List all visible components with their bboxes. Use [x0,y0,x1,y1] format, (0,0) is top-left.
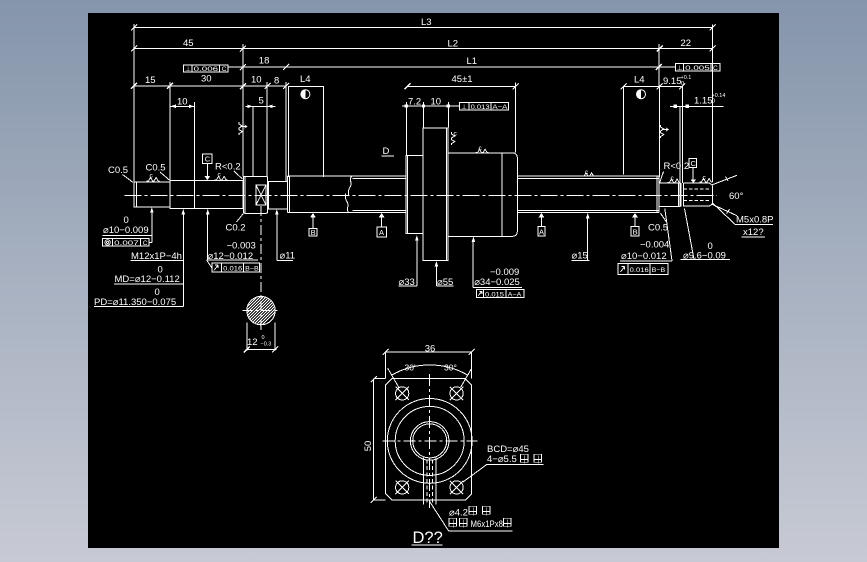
svg-text:A−A: A−A [492,104,508,111]
svg-text:0: 0 [262,335,265,341]
svg-text:60°: 60° [729,191,744,202]
svg-text:A−A: A−A [508,292,522,299]
svg-text:C: C [691,159,697,168]
svg-text:D??: D?? [413,529,443,547]
svg-text:⊥: ⊥ [461,104,467,111]
svg-text:45±1: 45±1 [452,74,473,85]
svg-text:50: 50 [363,441,374,452]
svg-text:B−B: B−B [652,267,666,274]
svg-text:D: D [383,146,390,157]
svg-text:⊥: ⊥ [677,65,683,72]
svg-text:⌀11: ⌀11 [280,250,296,261]
svg-text:7.2: 7.2 [408,97,421,108]
svg-text:L1: L1 [467,56,478,67]
svg-text:10: 10 [431,97,442,108]
svg-text:⌀10−0.009: ⌀10−0.009 [103,225,149,236]
svg-text:C0.2: C0.2 [226,223,246,234]
svg-text:0.006: 0.006 [194,66,219,73]
svg-text:18: 18 [259,55,270,66]
svg-text:C0.5: C0.5 [648,223,668,234]
svg-text:22: 22 [681,38,692,49]
svg-text:10: 10 [251,75,262,86]
svg-text:10: 10 [177,97,188,108]
svg-text:C: C [143,240,148,247]
svg-text:⊥: ⊥ [185,66,191,73]
svg-text:36: 36 [425,343,436,354]
svg-text:L4: L4 [300,74,311,85]
svg-text:0.016: 0.016 [630,267,649,274]
svg-text:9.15: 9.15 [663,76,682,87]
svg-text:0.007: 0.007 [114,240,139,247]
svg-text:0.005: 0.005 [685,65,710,72]
svg-text:C: C [205,155,211,164]
svg-text:⌀34−0.025: ⌀34−0.025 [474,277,520,288]
svg-text:⌀33: ⌀33 [399,277,415,288]
svg-text:R<0.2: R<0.2 [664,161,690,172]
svg-text:−0.004: −0.004 [640,240,669,251]
svg-text:45: 45 [183,38,194,49]
svg-text:8: 8 [274,76,279,87]
svg-text:0.013: 0.013 [471,104,490,111]
svg-text:⌀10−0.012: ⌀10−0.012 [621,251,667,262]
svg-text:A: A [379,228,384,237]
svg-text:C: C [713,65,718,72]
svg-text:15: 15 [145,75,156,86]
svg-text:5: 5 [259,95,264,106]
svg-text:M6x1Px8: M6x1Px8 [471,519,504,530]
svg-text:B: B [633,228,638,237]
svg-text:L3: L3 [421,17,432,28]
svg-text:L4: L4 [634,75,645,86]
svg-text:L2: L2 [448,39,459,50]
svg-text:1.15: 1.15 [694,96,713,107]
svg-text:C0.5: C0.5 [146,163,166,174]
svg-text:0.016: 0.016 [223,266,242,273]
svg-text:30: 30 [201,74,212,85]
svg-text:C0.5: C0.5 [108,165,128,176]
svg-text:⌀15: ⌀15 [572,251,588,262]
svg-text:30': 30' [405,363,416,373]
svg-text:30°: 30° [444,363,457,373]
svg-text:B: B [311,228,316,237]
svg-text:B−B: B−B [245,266,259,273]
svg-text:⌀9.6−0.09: ⌀9.6−0.09 [683,251,726,262]
svg-text:0: 0 [681,81,684,87]
svg-text:⌀55: ⌀55 [437,277,453,288]
svg-text:4−⌀5.5: 4−⌀5.5 [487,454,517,465]
svg-text:A: A [539,228,544,237]
svg-text:0.015: 0.015 [485,292,504,299]
svg-text:C: C [222,66,227,73]
svg-text:−0.3: −0.3 [261,342,272,348]
svg-text:12: 12 [247,337,258,348]
svg-text:⌀4.2: ⌀4.2 [449,508,468,519]
svg-text:0: 0 [712,99,715,105]
